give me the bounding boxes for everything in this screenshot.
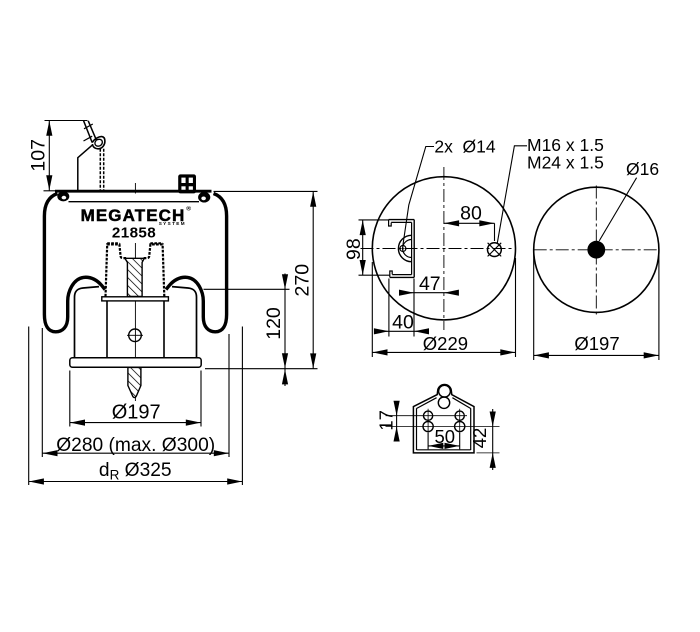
dim 40 line with outside arrows <box>375 330 429 332</box>
svg-text:270: 270 <box>291 264 313 297</box>
piston body walls <box>106 301 108 357</box>
arm hook curl <box>92 137 105 149</box>
svg-text:Ø229: Ø229 <box>423 333 468 354</box>
piston skirt right <box>172 287 197 358</box>
blind hole circle with cross <box>129 329 142 342</box>
hole bottom-right <box>455 421 465 431</box>
svg-text:M24 x 1.5: M24 x 1.5 <box>527 152 604 172</box>
piston rod upper (hatched) <box>125 258 144 296</box>
svg-text:SYSTEM: SYSTEM <box>159 221 186 226</box>
horizontal centerline of dia229 circle <box>361 248 514 250</box>
dim 270 line <box>312 192 314 369</box>
dim 270/120 extension bottom <box>205 368 318 370</box>
svg-text:47: 47 <box>419 273 441 295</box>
bracket top flange (top view) <box>389 219 415 221</box>
svg-text:42: 42 <box>469 428 490 449</box>
dia197 extension lines <box>533 254 535 361</box>
svg-text:21858: 21858 <box>112 225 156 242</box>
leader dia16 <box>599 178 636 241</box>
dim 50 line <box>428 445 460 447</box>
svg-text:98: 98 <box>343 238 365 260</box>
arm hatch tick 1 <box>84 124 93 129</box>
bracket vertical strip (hatched) <box>99 149 101 190</box>
svg-text:40: 40 <box>392 312 414 334</box>
top mounting arm diagonal strip <box>84 121 93 143</box>
piston bottom plate <box>70 358 201 367</box>
leader M16/M24 <box>497 146 527 243</box>
mounting plate inner lines <box>416 408 418 450</box>
svg-text:80: 80 <box>460 202 482 224</box>
piston rod lower (hatched) <box>128 367 141 397</box>
dim 17 line with outside arrows <box>396 402 398 440</box>
svg-text:Ø197: Ø197 <box>574 333 619 354</box>
dim 40 extension line <box>388 279 390 337</box>
air fitting nut <box>178 174 196 193</box>
dim 42 line with outside arrows <box>492 409 494 470</box>
svg-text:®: ® <box>186 205 191 213</box>
svg-text:Ø16: Ø16 <box>626 159 659 179</box>
svg-text:17: 17 <box>376 410 397 431</box>
top plate rolled lip right <box>198 192 210 203</box>
dia325 dim line <box>29 481 243 483</box>
dim 98 line <box>362 220 364 275</box>
dia197 dim line <box>70 422 201 424</box>
dia229 extension lines <box>371 262 373 357</box>
dim 47 extension line <box>413 279 415 337</box>
dim 270 extension top <box>214 190 318 192</box>
dia325 extension lines <box>28 327 30 486</box>
dim 42 extension line bottom <box>477 452 500 454</box>
dia197 extension lines <box>69 371 71 427</box>
hole top-right <box>455 411 464 420</box>
bracket pivot dome outer arc <box>398 235 411 261</box>
bracket pivot eye <box>400 246 406 252</box>
top-view circle dia229 <box>372 177 515 320</box>
piston flange <box>102 297 169 301</box>
dim 47 line with outside arrows <box>401 292 458 294</box>
dim 107 top extension line <box>45 120 88 122</box>
bellows top edge <box>69 201 200 203</box>
dia280 extension lines <box>41 328 43 457</box>
bracket left profile <box>78 145 92 190</box>
arm hook inner loop <box>95 139 102 146</box>
top plate rolled lip left <box>57 191 69 201</box>
dim 80 line <box>444 222 495 224</box>
SIDE VIEW GROUP <box>29 121 318 486</box>
dia280 dim line <box>42 452 229 454</box>
vertical centerline of dia197 circle <box>595 186 597 317</box>
plate top circle <box>439 385 451 397</box>
bracket pivot dome inner arc <box>403 240 412 258</box>
plate second circle <box>438 397 449 408</box>
BRACKET PLATE GROUP <box>386 385 500 470</box>
leader 2x dia14 <box>403 147 434 246</box>
dim 120 line <box>284 274 286 387</box>
dim 98 extension lines <box>359 219 390 221</box>
piston cup outline (dashed rubber) <box>106 244 128 296</box>
dim 50 extension lines <box>427 433 429 449</box>
dia229 dim line <box>372 351 515 353</box>
piston skirt left <box>75 287 100 358</box>
mounting plate outline <box>413 385 474 453</box>
center stud dia16 <box>587 241 605 259</box>
dia197 dim line <box>534 354 659 356</box>
piston cup rim top line <box>107 242 119 244</box>
bellows outer contour right <box>166 194 227 332</box>
bracket bottom flange (top view) <box>390 276 414 278</box>
hole top-left <box>424 411 433 420</box>
svg-text:107: 107 <box>28 139 50 172</box>
svg-text:Ø197: Ø197 <box>112 402 161 424</box>
hole row lines <box>386 415 468 417</box>
TOPVIEW GROUP <box>359 146 659 360</box>
svg-text:Ø280 (max. Ø300): Ø280 (max. Ø300) <box>56 435 215 456</box>
svg-text:2x Ø14: 2x Ø14 <box>434 137 496 157</box>
svg-text:120: 120 <box>263 307 285 340</box>
svg-text:50: 50 <box>435 426 456 447</box>
arm hatch tick 2 <box>84 136 93 141</box>
dim 120 extension top <box>204 288 290 290</box>
air fitting crossed circle <box>488 243 502 257</box>
bracket web (top view) <box>413 220 415 278</box>
top plate <box>44 190 56 192</box>
TEXTS GROUP <box>28 135 660 482</box>
hole bottom-left <box>423 421 433 431</box>
top-view circle dia197 <box>534 187 659 312</box>
center axis line <box>134 183 136 194</box>
dim 107 line <box>48 121 50 191</box>
bellows outer contour left <box>44 194 105 332</box>
horizontal centerline of dia197 circle <box>534 249 659 251</box>
vertical centerline of dia229 circle <box>443 167 445 330</box>
